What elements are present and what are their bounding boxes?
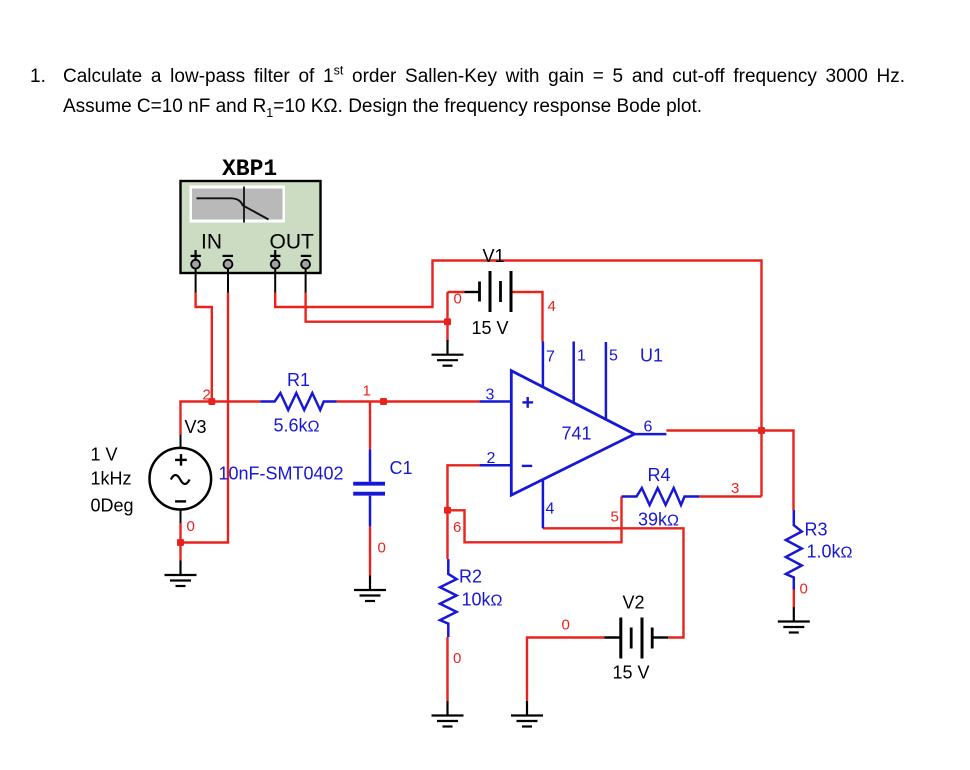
svg-text:2: 2 bbox=[487, 450, 496, 467]
svg-text:5: 5 bbox=[611, 509, 619, 526]
svg-text:10kΩ: 10kΩ bbox=[462, 590, 503, 610]
svg-text:741: 741 bbox=[562, 424, 592, 444]
svg-text:IN: IN bbox=[201, 231, 222, 254]
svg-text:1: 1 bbox=[577, 348, 586, 365]
svg-text:0: 0 bbox=[800, 581, 808, 598]
svg-text:3: 3 bbox=[486, 387, 495, 404]
svg-text:V1: V1 bbox=[483, 246, 505, 266]
svg-text:R1: R1 bbox=[287, 370, 310, 390]
svg-text:R3: R3 bbox=[805, 520, 828, 540]
svg-text:V3: V3 bbox=[185, 417, 207, 437]
svg-text:0: 0 bbox=[453, 650, 461, 667]
svg-text:0Deg: 0Deg bbox=[91, 496, 134, 516]
svg-text:2: 2 bbox=[203, 387, 211, 404]
svg-text:5.6kΩ: 5.6kΩ bbox=[274, 416, 320, 436]
svg-text:39kΩ: 39kΩ bbox=[638, 510, 679, 530]
svg-text:1kHz: 1kHz bbox=[91, 469, 132, 489]
svg-text:XBP1: XBP1 bbox=[222, 156, 277, 182]
svg-text:R2: R2 bbox=[459, 567, 482, 587]
svg-text:4: 4 bbox=[546, 501, 555, 518]
svg-text:U1: U1 bbox=[640, 346, 663, 366]
svg-text:0: 0 bbox=[562, 617, 570, 634]
svg-text:15 V: 15 V bbox=[472, 318, 509, 338]
svg-text:C1: C1 bbox=[390, 458, 413, 478]
svg-text:0: 0 bbox=[454, 291, 462, 308]
svg-text:15 V: 15 V bbox=[613, 663, 650, 683]
svg-text:1.0kΩ: 1.0kΩ bbox=[807, 542, 853, 562]
svg-text:1: 1 bbox=[363, 383, 371, 400]
svg-text:6: 6 bbox=[644, 419, 653, 436]
svg-text:10nF-SMT0402: 10nF-SMT0402 bbox=[219, 464, 344, 484]
svg-text:4: 4 bbox=[548, 298, 556, 315]
svg-text:1 V: 1 V bbox=[91, 445, 118, 465]
svg-text:0: 0 bbox=[378, 540, 386, 557]
svg-text:V2: V2 bbox=[623, 593, 645, 613]
svg-text:7: 7 bbox=[546, 349, 555, 366]
svg-text:3: 3 bbox=[731, 480, 739, 497]
svg-text:0: 0 bbox=[187, 518, 195, 535]
svg-text:R4: R4 bbox=[648, 465, 671, 485]
svg-text:6: 6 bbox=[453, 519, 461, 536]
svg-text:5: 5 bbox=[609, 348, 618, 365]
